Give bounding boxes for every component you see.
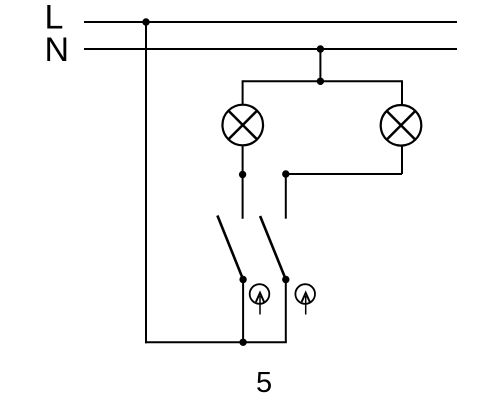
svg-text:N: N [45,31,70,69]
svg-text:5: 5 [256,367,272,399]
